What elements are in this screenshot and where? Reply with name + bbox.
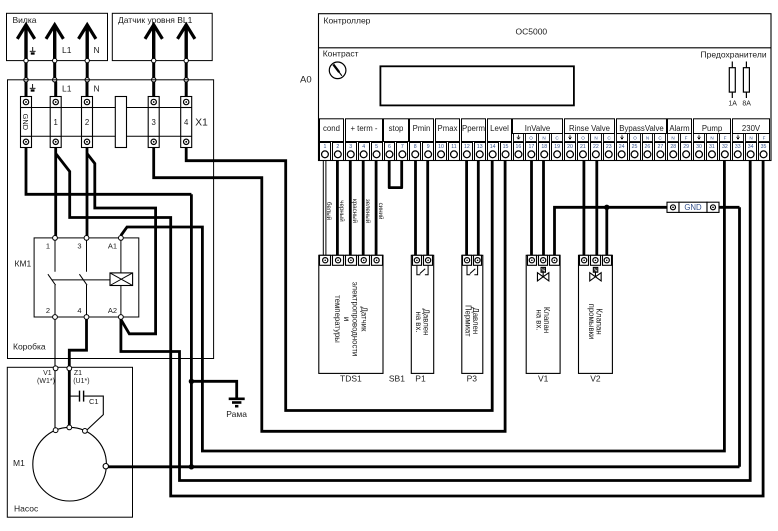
svg-text:черный: черный xyxy=(338,200,345,222)
controller terminal 15 xyxy=(501,143,512,161)
sub-label F terminal 35 xyxy=(759,134,770,142)
svg-text:(W1*): (W1*) xyxy=(37,378,55,385)
svg-text:InValve: InValve xyxy=(525,124,550,133)
sub-label C terminal 19 xyxy=(552,134,563,142)
earth symbol inside cabinet xyxy=(32,84,34,88)
junction dot PE/frame xyxy=(189,379,194,384)
wire cond t1 to TDS1 (white) xyxy=(322,161,324,256)
svg-text:8A: 8A xyxy=(742,101,751,108)
wire t3 to TDS1 xyxy=(349,161,352,256)
svg-text:Pmax: Pmax xyxy=(438,124,458,133)
connector circles at plug/sensor box bottom xyxy=(24,58,28,62)
svg-text:Контраст: Контраст xyxy=(323,48,359,58)
KM1 pole 3-4 contact xyxy=(86,240,88,271)
svg-text:красный: красный xyxy=(351,199,358,224)
svg-text:N: N xyxy=(542,136,545,141)
svg-text:Z1: Z1 xyxy=(74,370,82,377)
X1 terminal 2 xyxy=(82,97,93,148)
svg-text:35: 35 xyxy=(761,144,767,150)
svg-text:16: 16 xyxy=(516,144,522,150)
connector circles at cabinet box top xyxy=(24,78,28,82)
wire label белый xyxy=(325,202,332,221)
junction dot V2 earth / GND line xyxy=(604,205,609,210)
svg-text:11: 11 xyxy=(451,144,456,150)
wire t12 to P3 xyxy=(465,161,468,256)
svg-text:4: 4 xyxy=(184,118,189,127)
sensor pin 1 arrow xyxy=(152,26,155,59)
svg-text:17: 17 xyxy=(528,144,534,150)
svg-text:19: 19 xyxy=(554,144,560,150)
fuse FU1 1A xyxy=(731,62,733,99)
svg-text:1: 1 xyxy=(324,144,327,150)
svg-text:TDS1: TDS1 xyxy=(340,374,362,384)
svg-text:Предохранители: Предохранители xyxy=(701,50,767,60)
valve V2 box xyxy=(579,255,613,373)
svg-text:cond: cond xyxy=(323,124,340,133)
svg-text:N: N xyxy=(94,84,100,94)
motor M1 circle xyxy=(33,427,107,501)
controller group label Pump xyxy=(694,119,731,134)
svg-text:31: 31 xyxy=(709,144,715,150)
wire label красный xyxy=(351,199,358,224)
svg-text:КМ1: КМ1 xyxy=(15,259,32,269)
svg-text:P1: P1 xyxy=(415,374,426,384)
sub-label N terminal 31 xyxy=(707,134,718,142)
wire t17 to V1 xyxy=(530,161,533,256)
sub-label O terminal 25 xyxy=(630,134,641,142)
svg-text:34: 34 xyxy=(748,144,754,150)
X1 terminal 3 xyxy=(148,97,159,148)
wire N branch to KM1 A2 xyxy=(87,154,156,334)
controller group label Pmax xyxy=(436,119,460,142)
controller terminal 10 xyxy=(436,143,447,161)
svg-text:+ term -: + term - xyxy=(350,124,377,133)
svg-text:Насос: Насос xyxy=(14,504,39,514)
svg-text:5: 5 xyxy=(375,144,378,150)
stop jumper SB1 (t6-t7) xyxy=(389,161,402,188)
junction dot PE/motor line xyxy=(189,464,194,469)
svg-text:1: 1 xyxy=(46,242,50,251)
svg-text:на вх.: на вх. xyxy=(414,311,423,332)
svg-text:32: 32 xyxy=(722,144,728,150)
svg-text:O: O xyxy=(581,136,585,141)
svg-text:N: N xyxy=(594,136,597,141)
controller terminal 32 xyxy=(720,143,731,161)
wire t4 to TDS1 xyxy=(362,161,365,256)
svg-text:stop: stop xyxy=(389,124,404,133)
P1 switch symbol xyxy=(417,265,420,274)
motor output terminal xyxy=(103,464,108,469)
plug box Вилка xyxy=(7,13,108,60)
wire PE: X1 GND down, right, down to frame/motor xyxy=(26,148,191,195)
sensor pin 2 arrow xyxy=(184,26,187,59)
svg-text:29: 29 xyxy=(683,144,689,150)
wire KM1 A1 to controller Pump F (t32) xyxy=(121,161,725,452)
svg-text:Pump: Pump xyxy=(702,124,723,133)
svg-text:V2: V2 xyxy=(590,374,601,384)
svg-text:на вх.: на вх. xyxy=(535,309,544,330)
svg-text:BypassValve: BypassValve xyxy=(619,124,664,133)
svg-text:25: 25 xyxy=(632,144,638,150)
controller terminal 5 xyxy=(372,143,383,161)
svg-text:A2: A2 xyxy=(108,306,117,315)
controller terminal 27 xyxy=(655,143,666,161)
svg-text:20: 20 xyxy=(567,144,573,150)
svg-text:Коробка: Коробка xyxy=(13,342,46,352)
level sensor box Датчик уровня BL1 xyxy=(112,13,212,60)
KM1 coil xyxy=(110,273,133,286)
svg-text:6: 6 xyxy=(388,144,391,150)
controller group label Level xyxy=(488,119,512,142)
KM1 pole 1-2 contact xyxy=(54,240,56,271)
svg-text:23: 23 xyxy=(606,144,612,150)
wire L1 branch to controller 230V F (t35) xyxy=(56,154,763,497)
svg-text:Датчик уровня BL1: Датчик уровня BL1 xyxy=(118,15,193,25)
controller terminal 13 xyxy=(475,143,486,161)
wire t22 to V2 xyxy=(595,161,598,256)
svg-text:1: 1 xyxy=(54,118,58,127)
controller terminal 26 xyxy=(643,143,653,161)
sub-label C terminal 27 xyxy=(655,134,666,142)
wire KM1 A2 down to controller 230V N (t34) xyxy=(121,161,750,481)
controller terminal 1 xyxy=(320,143,331,161)
svg-text:Pmin: Pmin xyxy=(413,124,431,133)
controller terminal 17 xyxy=(526,143,537,161)
wire L1: X1-1 to KM1-1 xyxy=(54,148,57,238)
svg-text:15: 15 xyxy=(503,144,509,150)
svg-text:промывки: промывки xyxy=(587,304,596,340)
sub-label earth terminal 20 xyxy=(565,134,576,142)
svg-text:C1: C1 xyxy=(89,397,99,406)
svg-text:Датчик: Датчик xyxy=(359,307,368,332)
sub-label O terminal 17 xyxy=(526,134,537,142)
svg-text:230V: 230V xyxy=(742,124,761,133)
svg-text:Контроллер: Контроллер xyxy=(324,16,371,26)
V1 valve symbol xyxy=(541,267,545,272)
svg-text:Вилка: Вилка xyxy=(13,15,37,25)
svg-text:4: 4 xyxy=(77,306,81,315)
wire t9 to P1 xyxy=(426,161,429,256)
controller group label Rinse Valve xyxy=(565,119,615,134)
sub-label C terminal 23 xyxy=(604,134,615,142)
contactor KM1 box xyxy=(34,238,139,317)
controller terminal 19 xyxy=(552,143,563,161)
svg-text:M1: M1 xyxy=(13,458,25,468)
sub-label earth terminal 33 xyxy=(733,134,744,142)
svg-text:N: N xyxy=(710,136,713,141)
svg-text:V1: V1 xyxy=(538,374,549,384)
svg-text:22: 22 xyxy=(593,144,599,150)
controller group label InValve xyxy=(513,119,563,134)
plug pin N arrow xyxy=(85,26,88,59)
svg-text:синий: синий xyxy=(377,203,384,220)
controller terminal 6 xyxy=(385,143,395,161)
svg-text:9: 9 xyxy=(427,144,430,150)
svg-text:Р3: Р3 xyxy=(467,374,478,384)
wire BL1-2: X1-4 to controller Level t14 xyxy=(186,148,492,411)
svg-text:12: 12 xyxy=(464,144,470,150)
svg-text:4: 4 xyxy=(362,144,365,150)
wire t5 to TDS1 xyxy=(375,161,378,256)
X1 terminal GND xyxy=(21,97,32,148)
svg-text:N: N xyxy=(94,45,100,55)
svg-text:Рама: Рама xyxy=(226,409,247,419)
controller terminal 20 xyxy=(565,143,576,161)
wire GND block to vertical bus xyxy=(719,206,740,209)
svg-text:GND: GND xyxy=(684,203,702,212)
X1 terminal 1 xyxy=(50,97,61,148)
controller group label cond xyxy=(320,119,344,142)
controller terminal 8 xyxy=(410,143,421,161)
controller terminal 12 xyxy=(462,143,473,161)
svg-text:A1: A1 xyxy=(108,242,117,251)
wire to frame ground xyxy=(191,381,236,397)
controller terminal 35 xyxy=(759,143,770,161)
sub-label earth terminal 30 xyxy=(694,134,705,142)
controller group label Alarm xyxy=(668,119,692,134)
controller group label Pperm xyxy=(462,119,486,142)
controller box Контроллер ОС5000 xyxy=(319,14,772,161)
controller terminal 24 xyxy=(617,143,628,161)
svg-text:10: 10 xyxy=(438,144,444,150)
sub-label N terminal 26 xyxy=(643,134,653,142)
svg-text:33: 33 xyxy=(735,144,741,150)
sub-label O terminal 21 xyxy=(578,134,589,142)
LCD display xyxy=(380,66,574,105)
controller terminal 33 xyxy=(733,143,744,161)
controller terminal 29 xyxy=(681,143,692,161)
motor terminals V1 / Z1 on box edge xyxy=(53,366,58,371)
sensor TDS1 box xyxy=(319,255,383,373)
svg-text:F: F xyxy=(724,136,727,141)
X1 spacer terminal xyxy=(115,97,126,148)
wire BL1-1: X1-3 to controller Level t15 xyxy=(154,148,505,432)
valve V1 box xyxy=(526,255,560,373)
svg-text:V1: V1 xyxy=(43,370,52,377)
svg-text:14: 14 xyxy=(490,144,496,150)
svg-text:F: F xyxy=(763,136,766,141)
svg-text:(U1*): (U1*) xyxy=(73,378,89,385)
svg-text:N: N xyxy=(646,136,649,141)
sub-label N terminal 34 xyxy=(746,134,757,142)
svg-text:2: 2 xyxy=(85,118,89,127)
svg-text:Alarm: Alarm xyxy=(669,124,689,133)
controller terminal 25 xyxy=(630,143,641,161)
fuse FU2 8A xyxy=(745,62,747,99)
motor winding terminals xyxy=(53,428,58,433)
svg-text:L1: L1 xyxy=(62,45,72,55)
controller terminal 2 xyxy=(333,143,344,161)
svg-text:электропроводности: электропроводности xyxy=(351,282,360,357)
wire label зеленый xyxy=(364,199,371,224)
svg-text:28: 28 xyxy=(670,144,676,150)
wire t21 to V2 xyxy=(583,161,586,256)
sub-label F terminal 29 xyxy=(681,134,692,142)
svg-text:1A: 1A xyxy=(728,101,737,108)
cabinet box Коробка xyxy=(8,80,214,359)
controller group label 230V xyxy=(733,119,770,134)
svg-text:X1: X1 xyxy=(195,117,208,128)
controller terminal 28 xyxy=(668,143,679,161)
svg-text:Пермиат: Пермиат xyxy=(464,305,473,337)
wire t18 to V1 xyxy=(542,161,545,256)
controller terminal 21 xyxy=(578,143,589,161)
svg-text:24: 24 xyxy=(619,144,625,150)
controller group label stop xyxy=(384,119,409,142)
svg-text:2: 2 xyxy=(46,306,50,315)
wire KM1-4 to motor Z1 xyxy=(69,319,86,368)
X1 terminal 4 xyxy=(181,97,192,148)
svg-text:белый: белый xyxy=(325,202,332,221)
controller group label BypassValve xyxy=(617,119,667,134)
controller terminal 30 xyxy=(694,143,705,161)
wire t8 to P1 xyxy=(414,161,417,256)
svg-text:L1: L1 xyxy=(62,84,72,94)
GND terminal block xyxy=(667,202,679,212)
controller terminal 14 xyxy=(488,143,499,161)
svg-text:3: 3 xyxy=(152,118,156,127)
wire KM1-2 to motor V1 xyxy=(54,319,56,429)
controller terminal 7 xyxy=(397,143,408,161)
V2 valve symbol xyxy=(593,267,597,272)
controller group label + term - xyxy=(346,119,383,142)
pressure switch P1 box xyxy=(411,255,433,373)
svg-text:27: 27 xyxy=(657,144,663,150)
KM1 linkage line xyxy=(52,279,110,281)
svg-text:температуры: температуры xyxy=(333,295,342,343)
wire t2 to TDS1 xyxy=(336,161,339,256)
svg-text:18: 18 xyxy=(541,144,547,150)
controller terminal 31 xyxy=(707,143,718,161)
svg-text:F: F xyxy=(685,136,688,141)
svg-text:O: O xyxy=(529,136,533,141)
pressure switch P3 box xyxy=(462,255,483,373)
wire Z1 to motor xyxy=(68,371,71,428)
controller terminal 22 xyxy=(591,143,602,161)
svg-text:2: 2 xyxy=(336,144,339,150)
svg-text:Pperm: Pperm xyxy=(462,124,485,133)
svg-text:30: 30 xyxy=(696,144,702,150)
X1 rail lines xyxy=(21,107,192,109)
wire motor to GND bus xyxy=(108,465,739,468)
svg-text:N: N xyxy=(749,136,752,141)
svg-text:3: 3 xyxy=(77,242,81,251)
earth symbol at plug PE pin xyxy=(32,47,34,51)
sub-label F terminal 32 xyxy=(720,134,731,142)
svg-text:ОС5000: ОС5000 xyxy=(516,27,548,37)
sub-label earth terminal 24 xyxy=(617,134,628,142)
wire t13 to P3 xyxy=(477,161,480,256)
wire V2 earth up to GND strip xyxy=(605,207,608,255)
controller terminal 3 xyxy=(346,143,357,161)
svg-text:7: 7 xyxy=(401,144,404,150)
sub-label N terminal 28 xyxy=(668,134,679,142)
wires from cabinet entry circles into X1 terminals xyxy=(25,82,28,101)
capacitor C1 xyxy=(69,395,79,397)
controller terminal 23 xyxy=(604,143,615,161)
svg-text:Level: Level xyxy=(490,124,509,133)
sub-label earth terminal 16 xyxy=(514,134,524,142)
svg-text:13: 13 xyxy=(477,144,483,150)
svg-text:21: 21 xyxy=(580,144,586,150)
controller terminal 9 xyxy=(423,143,434,161)
svg-text:3: 3 xyxy=(349,144,352,150)
svg-text:N: N xyxy=(671,136,674,141)
controller terminal 4 xyxy=(359,143,370,161)
plug pin PE arrow xyxy=(24,26,27,59)
svg-text:A0: A0 xyxy=(300,75,312,86)
controller terminal 18 xyxy=(539,143,550,161)
controller terminal 34 xyxy=(746,143,757,161)
sub-label N terminal 22 xyxy=(591,134,602,142)
frame ground symbol xyxy=(229,397,245,400)
wire label черный xyxy=(338,200,345,222)
wire N: X1-2 to KM1-3 xyxy=(86,148,89,238)
sub-label N terminal 18 xyxy=(539,134,550,142)
pump box Насос xyxy=(7,367,132,517)
wire V1 earth up to GND strip xyxy=(555,207,668,255)
svg-text:26: 26 xyxy=(645,144,651,150)
svg-text:8: 8 xyxy=(414,144,417,150)
wires: plug/sensor into cabinet xyxy=(25,61,28,80)
svg-text:O: O xyxy=(633,136,637,141)
controller terminal 11 xyxy=(449,143,460,161)
plug pin L1 arrow xyxy=(53,26,56,59)
svg-text:и: и xyxy=(342,317,351,321)
svg-text:GND: GND xyxy=(21,114,30,130)
P3 switch symbol xyxy=(467,265,470,274)
svg-text:зеленый: зеленый xyxy=(364,199,371,224)
KM1 terminal circles xyxy=(53,236,58,241)
svg-text:SB1: SB1 xyxy=(389,374,405,384)
controller group label Pmin xyxy=(410,119,434,142)
svg-text:Rinse Valve: Rinse Valve xyxy=(569,124,610,133)
controller terminal 16 xyxy=(514,143,524,161)
wire label синий xyxy=(377,203,384,220)
